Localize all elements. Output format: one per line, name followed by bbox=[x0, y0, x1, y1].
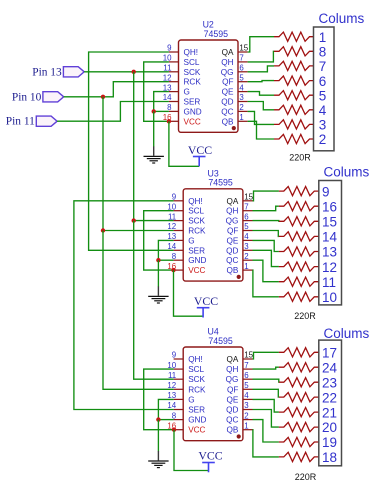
wire U3 pin 7 (QH) to resistor row 16 bbox=[253, 206, 279, 211]
svg-text:22: 22 bbox=[322, 390, 337, 405]
resistor R22 220R row 20 bbox=[279, 422, 319, 431]
svg-text:15: 15 bbox=[322, 215, 337, 230]
svg-text:Colums: Colums bbox=[319, 11, 365, 26]
wire Pin 11 to U2 SER (data net) bbox=[57, 102, 169, 122]
U2 left pin 11 SCK (stub, name, pin number) bbox=[163, 64, 201, 77]
resistor R24 220R row 18 bbox=[279, 452, 319, 461]
connector Colums block 2 bbox=[319, 181, 342, 306]
junction latch net near Pin 10 bbox=[101, 95, 105, 99]
U3 left pin 9 QH! (stub, name, pin number) bbox=[172, 193, 203, 206]
svg-text:SCK: SCK bbox=[188, 217, 205, 226]
label Colums heading 2 bbox=[324, 164, 370, 179]
wire U3 QH! to U4 SER (cascade) bbox=[74, 201, 174, 410]
U4 right pin 15 QA (stub, name, pin number) bbox=[227, 351, 254, 364]
connector Pin 11 (Arduino) bbox=[6, 116, 57, 128]
wire U3 pin 1 (QB) to resistor row 10 bbox=[253, 270, 279, 297]
wire U3 GND pin 8 bbox=[158, 259, 173, 261]
svg-text:3: 3 bbox=[244, 242, 249, 251]
svg-text:QF: QF bbox=[222, 78, 233, 87]
wire U3 pin 5 (QF) to resistor row 14 bbox=[253, 231, 279, 237]
svg-text:10: 10 bbox=[322, 290, 337, 305]
resistor R2 220R row 8 bbox=[274, 47, 314, 56]
wire U4 VCC to power symbol bbox=[174, 430, 209, 471]
resistor R11 220R row 15 bbox=[279, 217, 319, 226]
connector Pin 10 (Arduino) bbox=[12, 91, 64, 103]
svg-text:QH!: QH! bbox=[188, 355, 203, 364]
U3 right pin 15 QA (stub, name, pin number) bbox=[227, 193, 254, 206]
wire U3 pin 2 (QC) to resistor row 11 bbox=[253, 260, 279, 282]
svg-text:23: 23 bbox=[322, 375, 337, 390]
junction clock net at U3 SCK bbox=[132, 218, 136, 222]
svg-text:SCL: SCL bbox=[188, 365, 204, 374]
wire U3 VCC pin 16 bbox=[173, 269, 175, 271]
svg-text:220R: 220R bbox=[295, 472, 317, 482]
svg-text:1: 1 bbox=[244, 421, 248, 430]
U4 right pin 5 QF (stub, name, pin number) bbox=[227, 381, 252, 394]
U3 right pin 1 QB (stub, name, pin number) bbox=[227, 262, 253, 275]
U4 left pin 13 G (stub, name, pin number) bbox=[167, 391, 194, 404]
svg-text:1: 1 bbox=[244, 262, 248, 271]
label Colums heading 3 bbox=[324, 326, 370, 341]
U3 left pin 8 GND (stub, name, pin number) bbox=[172, 252, 207, 265]
ground symbol below U3 bbox=[148, 260, 168, 303]
svg-text:QG: QG bbox=[221, 68, 234, 77]
svg-text:1: 1 bbox=[239, 113, 243, 122]
ground symbol below U2 bbox=[144, 111, 164, 163]
svg-text:5: 5 bbox=[239, 73, 244, 82]
svg-text:QH!: QH! bbox=[188, 197, 203, 206]
U4 right pin 4 QE (stub, name, pin number) bbox=[227, 391, 253, 404]
svg-text:GND: GND bbox=[188, 256, 206, 265]
svg-text:6: 6 bbox=[319, 74, 327, 89]
svg-text:QE: QE bbox=[227, 395, 239, 404]
wire U2 GND pin 8 bbox=[154, 110, 169, 112]
shift register U3 74595 body with reference and value labels bbox=[183, 169, 243, 282]
svg-text:QA: QA bbox=[227, 197, 239, 206]
svg-text:4: 4 bbox=[244, 232, 249, 241]
svg-text:6: 6 bbox=[244, 371, 249, 380]
wire U4 G (pin 13) tied to GND bbox=[158, 399, 173, 419]
U3 right pin 4 QE (stub, name, pin number) bbox=[227, 232, 253, 245]
svg-text:VCC: VCC bbox=[198, 449, 222, 463]
power symbol VCC net U4 bbox=[198, 449, 222, 473]
U2 left pin 10 SCL (stub, name, pin number) bbox=[163, 54, 200, 67]
svg-text:15: 15 bbox=[239, 44, 248, 53]
svg-text:2: 2 bbox=[239, 103, 243, 112]
svg-text:SER: SER bbox=[188, 406, 205, 415]
wire U3 G (pin 13) tied to GND bbox=[158, 240, 173, 260]
svg-text:VCC: VCC bbox=[184, 117, 201, 126]
value label 220R for U3 resistor bank bbox=[294, 311, 316, 321]
wire U2 pin 2 (QC) to resistor row 3 bbox=[248, 111, 274, 124]
svg-text:15: 15 bbox=[244, 193, 253, 202]
svg-text:QC: QC bbox=[226, 256, 238, 265]
svg-text:20: 20 bbox=[322, 420, 337, 435]
wire U4 VCC pin 16 bbox=[173, 429, 175, 431]
resistor R23 220R row 19 bbox=[279, 437, 319, 446]
svg-text:SER: SER bbox=[188, 246, 205, 255]
svg-text:3: 3 bbox=[244, 401, 249, 410]
ground symbol below U4 bbox=[148, 420, 168, 468]
svg-text:SER: SER bbox=[184, 98, 201, 107]
wire U4 pin 15 (QA) to resistor row 17 bbox=[253, 352, 279, 359]
svg-text:QD: QD bbox=[226, 406, 238, 415]
U2 right pin 1 QB (stub, name, pin number) bbox=[222, 113, 248, 126]
shift register U2 74595 body with reference and value labels bbox=[179, 20, 239, 133]
svg-text:Colums: Colums bbox=[324, 326, 370, 341]
U3 left pin 12 RCK (stub, name, pin number) bbox=[167, 222, 206, 235]
svg-text:2: 2 bbox=[319, 132, 327, 147]
svg-text:11: 11 bbox=[322, 275, 336, 290]
junction clock net at U2 SCK bbox=[132, 70, 136, 74]
svg-text:17: 17 bbox=[322, 346, 337, 361]
wire U2 VCC pin 16 bbox=[168, 120, 170, 122]
svg-text:3: 3 bbox=[319, 118, 327, 133]
svg-text:QC: QC bbox=[226, 416, 238, 425]
wire U4 pin 6 (QG) to resistor row 23 bbox=[253, 379, 279, 382]
U4 left pin 12 RCK (stub, name, pin number) bbox=[167, 381, 206, 394]
U4 left pin 8 GND (stub, name, pin number) bbox=[172, 411, 207, 424]
U4 left pin 9 QH! (stub, name, pin number) bbox=[172, 351, 203, 364]
svg-text:24: 24 bbox=[322, 360, 338, 375]
svg-text:6: 6 bbox=[239, 64, 244, 73]
resistor R6 220R row 4 bbox=[274, 105, 314, 114]
U4 left pin 14 SER (stub, name, pin number) bbox=[167, 401, 205, 414]
power symbol VCC net U3 bbox=[194, 294, 218, 317]
U4 right pin 1 QB (stub, name, pin number) bbox=[227, 421, 253, 434]
svg-text:G: G bbox=[188, 395, 194, 404]
svg-text:15: 15 bbox=[244, 351, 253, 360]
wire Pin 13 to U2 SCK (clock net) bbox=[84, 71, 169, 73]
U2 left pin 13 G (stub, name, pin number) bbox=[163, 83, 190, 96]
resistor R18 220R row 24 bbox=[279, 363, 319, 372]
U2 left pin 16 VCC (stub, name, pin number) bbox=[163, 113, 201, 126]
U3 right pin 2 QC (stub, name, pin number) bbox=[226, 252, 252, 265]
U2 right pin 7 QH (stub, name, pin number) bbox=[221, 54, 247, 67]
wire U2 pin 6 (QG) to resistor row 7 bbox=[248, 66, 274, 72]
connector Pin 13 (Arduino) bbox=[32, 66, 84, 78]
U2 right pin 5 QF (stub, name, pin number) bbox=[222, 73, 247, 86]
wire U2 pin 15 (QA) to resistor row 1 bbox=[248, 37, 274, 52]
svg-text:G: G bbox=[184, 88, 190, 97]
wire latch bus U3 to U4 RCK bbox=[103, 231, 174, 390]
resistor R19 220R row 23 bbox=[279, 378, 319, 387]
svg-text:7: 7 bbox=[319, 59, 327, 74]
resistor R20 220R row 22 bbox=[279, 393, 319, 402]
svg-text:Pin 10: Pin 10 bbox=[12, 91, 42, 103]
svg-text:GND: GND bbox=[188, 416, 206, 425]
U4 left pin 11 SCK (stub, name, pin number) bbox=[168, 371, 206, 384]
wire U4 pin 5 (QF) to resistor row 22 bbox=[253, 389, 279, 397]
svg-text:74595: 74595 bbox=[208, 336, 233, 346]
svg-text:SCK: SCK bbox=[188, 375, 205, 384]
U3 left pin 10 SCL (stub, name, pin number) bbox=[167, 202, 204, 215]
svg-text:QF: QF bbox=[227, 227, 238, 236]
svg-text:RCK: RCK bbox=[188, 227, 206, 236]
resistor R21 220R row 21 bbox=[279, 408, 319, 417]
svg-text:QD: QD bbox=[226, 246, 238, 255]
connector Colums block 1 bbox=[314, 27, 335, 151]
svg-text:14: 14 bbox=[322, 230, 338, 245]
U3 left pin 11 SCK (stub, name, pin number) bbox=[168, 212, 206, 225]
wire U2 pin 5 (QF) to resistor row 6 bbox=[248, 81, 274, 82]
wire U4 pin 7 (QH) to resistor row 24 bbox=[253, 367, 279, 369]
wire U4 GND pin 8 bbox=[158, 419, 173, 421]
wire U4 pin 3 (QD) to resistor row 20 bbox=[253, 410, 279, 428]
svg-text:3: 3 bbox=[239, 93, 244, 102]
svg-text:9: 9 bbox=[322, 184, 330, 199]
U2 left pin 14 SER (stub, name, pin number) bbox=[163, 93, 201, 106]
U3 right pin 3 QD (stub, name, pin number) bbox=[226, 242, 252, 255]
shift register U4 74595 body with reference and value labels bbox=[183, 327, 243, 441]
wire U4 SCL tied to VCC rail bbox=[144, 369, 174, 430]
resistor R17 220R row 17 bbox=[279, 348, 319, 357]
U4 right pin 3 QD (stub, name, pin number) bbox=[226, 401, 252, 414]
resistor R10 220R row 16 bbox=[279, 202, 319, 211]
svg-text:QD: QD bbox=[221, 98, 233, 107]
U3 left pin 13 G (stub, name, pin number) bbox=[167, 232, 194, 245]
wire U2 G (pin 13) tied to GND bbox=[154, 92, 169, 112]
resistor R9 220R row 9 bbox=[279, 187, 319, 196]
U4 left pin 16 VCC (stub, name, pin number) bbox=[167, 421, 205, 434]
svg-text:2: 2 bbox=[244, 252, 248, 261]
svg-text:QB: QB bbox=[222, 117, 234, 126]
wire U2 pin 3 (QD) to resistor row 4 bbox=[248, 102, 274, 110]
U2 right pin 3 QD (stub, name, pin number) bbox=[221, 93, 247, 106]
svg-text:Pin 13: Pin 13 bbox=[32, 66, 62, 78]
wire U3 SCL tied to VCC rail bbox=[144, 211, 174, 270]
svg-text:QE: QE bbox=[227, 236, 239, 245]
svg-text:SCL: SCL bbox=[188, 207, 204, 216]
wire U3 pin 15 (QA) to resistor row 9 bbox=[253, 191, 279, 201]
svg-text:QG: QG bbox=[226, 217, 239, 226]
resistor R14 220R row 12 bbox=[279, 262, 319, 271]
svg-text:QF: QF bbox=[227, 385, 238, 394]
wire U3 VCC to power symbol bbox=[174, 270, 204, 316]
U4 right pin 7 QH (stub, name, pin number) bbox=[226, 361, 252, 374]
junction U2 GND node bbox=[152, 109, 156, 113]
svg-text:RCK: RCK bbox=[184, 78, 202, 87]
resistor R16 220R row 10 bbox=[279, 292, 319, 301]
wire U3 pin 3 (QD) to resistor row 12 bbox=[253, 250, 279, 266]
U4 left pin 10 SCL (stub, name, pin number) bbox=[167, 361, 204, 374]
svg-text:1: 1 bbox=[319, 30, 327, 45]
wire U3 pin 6 (QG) to resistor row 15 bbox=[253, 220, 279, 223]
wire U2 VCC to power symbol bbox=[169, 121, 199, 166]
svg-text:4: 4 bbox=[244, 391, 249, 400]
svg-text:SCK: SCK bbox=[184, 68, 201, 77]
svg-text:QA: QA bbox=[227, 355, 239, 364]
connector Colums block 3 bbox=[319, 340, 342, 466]
U4 right pin 2 QC (stub, name, pin number) bbox=[226, 411, 252, 424]
svg-text:Colums: Colums bbox=[324, 164, 370, 179]
resistor R4 220R row 6 bbox=[274, 76, 314, 85]
resistor R8 220R row 2 bbox=[274, 134, 314, 143]
svg-text:QE: QE bbox=[222, 88, 234, 97]
svg-text:7: 7 bbox=[244, 361, 248, 370]
wire U2 QH! to U3 SER (cascade) bbox=[89, 52, 174, 250]
wire clock bus U2 to U3 SCK bbox=[134, 72, 174, 221]
wire clock bus U3 to U4 SCK bbox=[134, 221, 174, 380]
svg-text:QH!: QH! bbox=[184, 48, 199, 57]
U2 right pin 4 QE (stub, name, pin number) bbox=[222, 83, 248, 96]
svg-text:18: 18 bbox=[322, 450, 337, 465]
svg-text:VCC: VCC bbox=[194, 294, 218, 308]
resistor R7 220R row 3 bbox=[274, 120, 314, 129]
junction U3 GND node bbox=[156, 258, 160, 262]
svg-text:74595: 74595 bbox=[204, 29, 229, 39]
svg-text:16: 16 bbox=[322, 199, 337, 214]
svg-text:QH: QH bbox=[221, 58, 233, 67]
U2 right pin 6 QG (stub, name, pin number) bbox=[221, 64, 248, 77]
wire U4 pin 2 (QC) to resistor row 19 bbox=[253, 420, 279, 442]
svg-text:7: 7 bbox=[244, 202, 248, 211]
svg-text:5: 5 bbox=[319, 88, 327, 103]
U4 right pin 6 QG (stub, name, pin number) bbox=[226, 371, 253, 384]
U2 right pin 2 QC (stub, name, pin number) bbox=[221, 103, 247, 116]
svg-text:QB: QB bbox=[227, 426, 239, 435]
U2 left pin 9 QH! (stub, name, pin number) bbox=[167, 44, 198, 57]
svg-text:VCC: VCC bbox=[188, 143, 212, 157]
U3 right pin 6 QG (stub, name, pin number) bbox=[226, 212, 253, 225]
svg-text:4: 4 bbox=[239, 83, 244, 92]
svg-text:Pin 11: Pin 11 bbox=[6, 116, 35, 128]
svg-text:220R: 220R bbox=[294, 311, 316, 321]
svg-text:4: 4 bbox=[319, 103, 327, 118]
svg-text:220R: 220R bbox=[289, 153, 311, 163]
junction U2 VCC node bbox=[167, 119, 171, 123]
wire U4 pin 1 (QB) to resistor row 18 bbox=[253, 430, 279, 457]
wire U2 pin 7 (QH) to resistor row 8 bbox=[248, 51, 274, 62]
svg-text:QH: QH bbox=[226, 365, 238, 374]
svg-text:5: 5 bbox=[244, 381, 249, 390]
U3 left pin 14 SER (stub, name, pin number) bbox=[167, 242, 205, 255]
resistor R5 220R row 5 bbox=[274, 91, 314, 100]
svg-text:5: 5 bbox=[244, 222, 249, 231]
svg-text:QC: QC bbox=[221, 107, 233, 116]
wire U2 SCL tied to VCC rail bbox=[144, 62, 169, 121]
resistor R1 220R row 1 bbox=[274, 32, 314, 41]
junction U3 VCC node bbox=[171, 268, 175, 272]
svg-text:QB: QB bbox=[227, 266, 239, 275]
svg-text:GND: GND bbox=[184, 107, 202, 116]
resistor R3 220R row 7 bbox=[274, 61, 314, 70]
resistor R12 220R row 14 bbox=[279, 232, 319, 241]
svg-text:RCK: RCK bbox=[188, 385, 206, 394]
label Colums heading 1 bbox=[319, 11, 365, 26]
wire latch bus to U3 RCK bbox=[103, 97, 174, 231]
U3 right pin 7 QH (stub, name, pin number) bbox=[226, 202, 252, 215]
svg-text:2: 2 bbox=[244, 411, 248, 420]
svg-text:19: 19 bbox=[322, 435, 337, 450]
svg-text:QA: QA bbox=[222, 48, 234, 57]
junction U4 VCC node bbox=[172, 428, 176, 432]
resistor R13 220R row 13 bbox=[279, 247, 319, 256]
value label 220R for U4 resistor bank bbox=[295, 472, 317, 482]
resistor R15 220R row 11 bbox=[279, 277, 319, 286]
wire U2 pin 4 (QE) to resistor row 5 bbox=[248, 92, 274, 96]
svg-text:QG: QG bbox=[226, 375, 239, 384]
junction U4 GND node bbox=[156, 417, 160, 421]
svg-text:21: 21 bbox=[322, 405, 337, 420]
U2 left pin 8 GND (stub, name, pin number) bbox=[167, 103, 202, 116]
svg-text:VCC: VCC bbox=[188, 426, 205, 435]
U3 left pin 16 VCC (stub, name, pin number) bbox=[167, 262, 205, 275]
svg-text:G: G bbox=[188, 236, 194, 245]
wire Pin 10 to U2 RCK (latch net) bbox=[64, 82, 169, 97]
junction latch net at U3 RCK bbox=[101, 228, 105, 232]
value label 220R for U2 resistor bank bbox=[289, 153, 311, 163]
power symbol VCC net U2 bbox=[188, 143, 212, 166]
svg-text:7: 7 bbox=[239, 54, 243, 63]
U2 right pin 15 QA (stub, name, pin number) bbox=[222, 44, 249, 57]
wire U3 pin 4 (QE) to resistor row 13 bbox=[253, 240, 279, 251]
svg-text:VCC: VCC bbox=[188, 266, 205, 275]
svg-text:8: 8 bbox=[319, 45, 327, 60]
U2 left pin 12 RCK (stub, name, pin number) bbox=[163, 73, 202, 86]
svg-text:6: 6 bbox=[244, 212, 249, 221]
svg-text:QH: QH bbox=[226, 207, 238, 216]
svg-text:SCL: SCL bbox=[184, 58, 200, 67]
svg-text:74595: 74595 bbox=[208, 178, 233, 188]
wire U2 pin 1 (QB) to resistor row 2 bbox=[248, 121, 274, 139]
wire U4 pin 4 (QE) to resistor row 21 bbox=[253, 399, 279, 412]
svg-text:9: 9 bbox=[172, 351, 177, 360]
svg-text:13: 13 bbox=[322, 245, 337, 260]
U3 right pin 5 QF (stub, name, pin number) bbox=[227, 222, 252, 235]
svg-text:12: 12 bbox=[322, 260, 337, 275]
